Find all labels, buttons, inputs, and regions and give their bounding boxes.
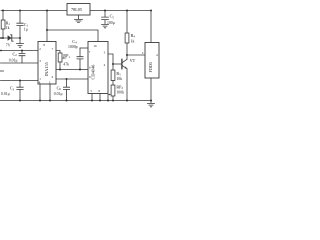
svg-text:C4: C4 [72,39,77,45]
wire U2 pin11 to rail [99,94,101,101]
ground at rail end [148,101,155,107]
svg-text:0.01μ: 0.01μ [1,92,10,96]
svg-text:3: 3 [142,51,144,55]
svg-text:7: 7 [89,50,91,54]
wire U1 pin4 to rail [39,84,41,101]
wire collector to U4 [127,54,145,56]
svg-text:R5: R5 [116,71,121,77]
svg-text:10k: 10k [116,77,122,81]
svg-text:CD4046: CD4046 [90,64,95,80]
wire zener line [1,37,21,39]
svg-text:C5: C5 [110,14,115,20]
wire supply branch to U2 [47,30,98,42]
wire base node to R5 [112,64,114,70]
svg-text:1000p: 1000p [68,45,78,49]
capacitor C2 [19,51,25,64]
svg-text:4: 4 [156,53,158,57]
svg-text:16: 16 [93,44,97,48]
svg-text:2: 2 [39,47,41,51]
svg-text:0.01μ: 0.01μ [9,58,18,62]
wire input line pin3 [1,62,39,64]
transistor VT [123,55,127,69]
svg-text:4: 4 [104,63,106,67]
resistor R4 [126,11,128,34]
wire U2 pin8 to rail [91,94,93,101]
svg-text:1k: 1k [131,40,135,44]
labels [1,7,153,96]
ground under 78L05 [75,15,83,23]
wire U1 output to U2 [56,78,88,80]
wire gain line y70 [56,69,88,71]
ground under C5 [102,24,109,27]
wire U1 top supply [46,11,48,42]
svg-text:C3: C3 [10,86,15,92]
svg-text:1k: 1k [6,26,10,30]
junction dots [0,10,152,102]
svg-text:R4: R4 [131,33,136,39]
wire top rail right [90,10,151,12]
svg-text:INA155: INA155 [44,61,49,76]
svg-text:0.01μ: 0.01μ [54,92,63,96]
svg-text:47k: 47k [63,62,69,66]
svg-text:7V: 7V [6,43,11,47]
svg-text:5: 5 [90,89,92,93]
IC U2 CD4046 box [88,42,108,94]
svg-text:RP2: RP2 [116,84,123,90]
capacitor C1 [17,11,23,39]
svg-text:8: 8 [43,43,45,47]
wire ref line pin1 [1,80,39,82]
op-amp U1 INA155 box [38,42,56,85]
svg-text:6: 6 [52,75,54,79]
svg-text:3: 3 [39,59,41,63]
svg-text:8: 8 [98,89,100,93]
wire U1 pin5 to rail [49,84,51,101]
IC U4 FDD5 box [145,43,159,79]
svg-text:C6: C6 [57,85,62,91]
svg-text:RP1: RP1 [63,53,70,59]
wire top rail left [1,10,67,12]
wire U1 pin7 to pot top [56,51,60,54]
wire C4 top to U2 pin7 [80,47,88,49]
ground under C1 [17,38,24,47]
svg-text:1μ: 1μ [24,27,28,31]
capacitor C5 [102,11,109,25]
RP2 wiper arrow from U2 [108,94,110,96]
svg-text:FDD5: FDD5 [148,62,153,72]
resistor R5 [111,70,115,81]
capacitor C3 [17,81,23,101]
wire input line pin2 [1,50,39,52]
regulator U3 78L05 [67,4,90,16]
svg-text:78L05: 78L05 [71,7,82,12]
svg-text:100k: 100k [116,91,124,95]
resistor R1 [2,11,4,21]
wire U4 top to rail [150,11,152,43]
potentiometer RP2 [111,85,115,96]
wire U4 bottom to rail [150,78,152,101]
capacitor C6 [63,79,69,101]
wire stub left mid [0,70,4,72]
pin numbers [39,43,158,93]
svg-text:100μ: 100μ [107,21,115,25]
capacitor C4 [77,48,83,70]
zener diode VD 7V [8,35,12,41]
svg-text:C2: C2 [13,51,18,57]
svg-text:3: 3 [104,51,106,55]
svg-text:7: 7 [52,47,54,51]
wire U2 pin3 to base node [108,54,113,64]
svg-text:VT: VT [130,58,136,63]
potentiometer RP1 [58,53,62,62]
RP1 wiper arrow [63,57,66,59]
wire wiper to ground rail [107,95,109,101]
wire bottom rail [0,100,152,102]
